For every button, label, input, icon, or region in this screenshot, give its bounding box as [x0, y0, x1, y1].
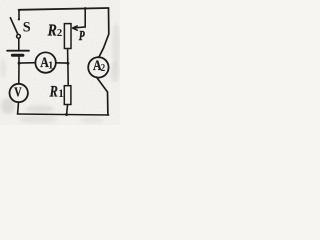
rheostat R2 body — [64, 24, 71, 49]
wire V to bottom wire — [17, 102, 20, 113]
svg-text:R: R — [47, 21, 57, 40]
ammeter A1 — [35, 52, 55, 72]
switch S blade — [10, 18, 17, 34]
wire A1 to node M — [56, 62, 68, 64]
wire top — [19, 8, 109, 10]
battery long plate — [7, 50, 29, 52]
svg-text:P: P — [79, 28, 85, 43]
battery short plate — [12, 54, 23, 57]
svg-text:R: R — [49, 83, 58, 100]
svg-text:1: 1 — [58, 88, 64, 100]
svg-text:V: V — [14, 84, 21, 99]
resistor R1 body — [64, 86, 71, 105]
node top junction dot — [84, 7, 87, 10]
svg-text:2: 2 — [57, 28, 62, 39]
wire node L to ammeter A1 — [19, 62, 35, 64]
wire right top to A2 — [99, 8, 109, 57]
wire top-left stub to switch — [18, 10, 20, 19]
svg-text:S: S — [23, 20, 31, 36]
svg-text:2: 2 — [101, 62, 106, 74]
wire R2 bottom to node M — [67, 49, 69, 63]
wire battery to node L to voltmeter — [18, 57, 20, 84]
ammeter A2 — [88, 57, 108, 77]
switch S top contact — [18, 18, 20, 20]
wiper P arrow — [73, 27, 85, 28]
switch S bottom contact — [17, 34, 21, 38]
wire switch to battery — [18, 38, 20, 49]
wire wiper P vertical from top wire — [84, 9, 86, 27]
node bottom junction dot — [65, 113, 68, 116]
node L junction dot — [18, 62, 21, 65]
svg-text:1: 1 — [48, 60, 53, 72]
voltmeter V — [10, 84, 28, 102]
wire R1 bottom to bottom wire — [66, 105, 69, 115]
wire A2 to bottom wire — [97, 77, 108, 115]
wire node M to R1 — [67, 63, 69, 85]
node M junction dot — [66, 62, 69, 65]
wire bottom — [17, 114, 108, 115]
